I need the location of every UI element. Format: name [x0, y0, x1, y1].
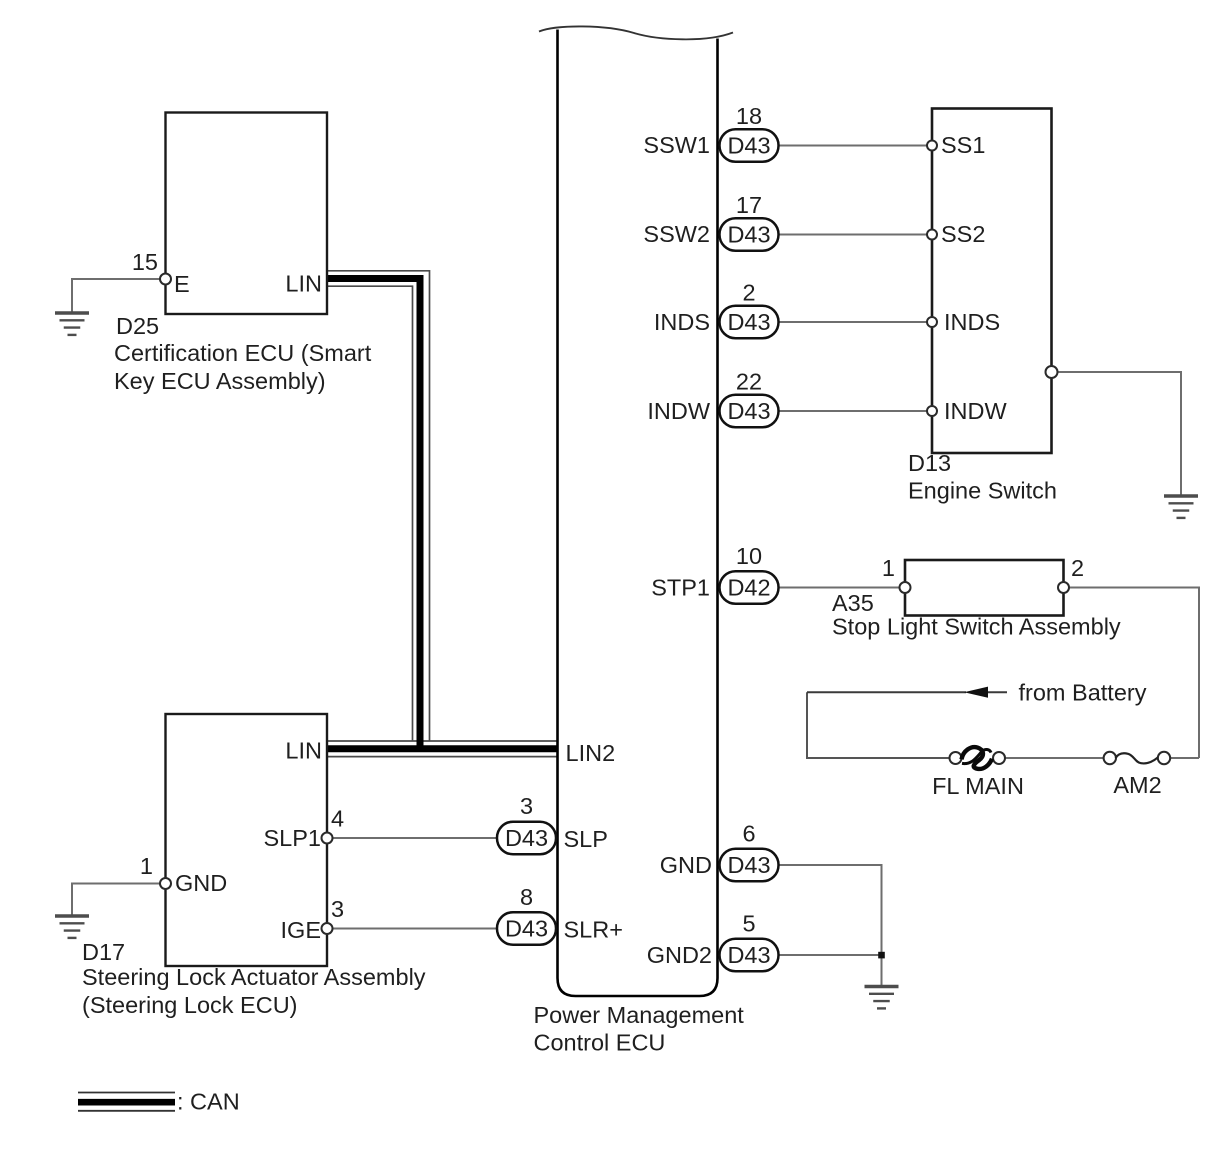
svg-text:D43: D43: [727, 942, 770, 968]
svg-text:22: 22: [736, 369, 762, 395]
svg-text:D43: D43: [727, 133, 770, 159]
svg-text:1: 1: [882, 555, 895, 581]
svg-text:Stop Light Switch Assembly: Stop Light Switch Assembly: [832, 614, 1121, 640]
svg-text:FL MAIN: FL MAIN: [932, 773, 1024, 799]
svg-text:INDS: INDS: [944, 309, 1000, 335]
svg-text:AM2: AM2: [1113, 772, 1161, 798]
svg-text:: CAN: : CAN: [177, 1089, 240, 1115]
svg-text:INDW: INDW: [944, 398, 1007, 424]
svg-text:D42: D42: [727, 575, 770, 601]
svg-text:3: 3: [520, 793, 533, 819]
svg-text:Engine Switch: Engine Switch: [908, 478, 1057, 504]
svg-text:D43: D43: [727, 222, 770, 248]
svg-text:2: 2: [742, 280, 755, 306]
svg-text:SS1: SS1: [941, 132, 985, 158]
svg-text:Steering Lock Actuator Assembl: Steering Lock Actuator Assembly: [82, 964, 426, 990]
svg-text:SLR+: SLR+: [564, 917, 623, 943]
svg-text:(Steering Lock ECU): (Steering Lock ECU): [82, 992, 298, 1018]
svg-text:5: 5: [742, 911, 755, 937]
svg-text:SSW1: SSW1: [643, 132, 710, 158]
svg-text:D43: D43: [727, 309, 770, 335]
svg-text:LIN: LIN: [285, 738, 322, 764]
svg-text:Certification ECU (Smart: Certification ECU (Smart: [114, 340, 372, 366]
svg-text:17: 17: [736, 192, 762, 218]
svg-text:INDW: INDW: [647, 398, 710, 424]
svg-text:STP1: STP1: [651, 575, 710, 601]
svg-text:SSW2: SSW2: [643, 221, 710, 247]
svg-text:GND: GND: [175, 870, 227, 896]
svg-text:D17: D17: [82, 939, 125, 965]
svg-text:GND2: GND2: [647, 942, 712, 968]
svg-text:D43: D43: [505, 916, 548, 942]
svg-text:15: 15: [132, 249, 158, 275]
svg-text:18: 18: [736, 103, 762, 129]
svg-text:GND: GND: [660, 852, 712, 878]
svg-text:3: 3: [331, 896, 344, 922]
svg-text:from Battery: from Battery: [1019, 680, 1147, 706]
svg-text:LIN2: LIN2: [566, 740, 616, 766]
svg-text:A35: A35: [832, 590, 874, 616]
svg-text:10: 10: [736, 543, 762, 569]
svg-text:D13: D13: [908, 450, 951, 476]
svg-text:Power Management: Power Management: [534, 1002, 745, 1028]
svg-text:D43: D43: [727, 852, 770, 878]
svg-text:D25: D25: [116, 313, 159, 339]
svg-text:Key ECU Assembly): Key ECU Assembly): [114, 368, 326, 394]
svg-text:SLP1: SLP1: [264, 825, 322, 851]
svg-text:8: 8: [520, 884, 533, 910]
svg-text:LIN: LIN: [285, 271, 322, 297]
svg-text:SLP: SLP: [564, 826, 608, 852]
svg-text:Control ECU: Control ECU: [534, 1030, 666, 1056]
svg-text:D43: D43: [505, 825, 548, 851]
svg-text:INDS: INDS: [654, 309, 710, 335]
svg-text:6: 6: [742, 821, 755, 847]
svg-text:2: 2: [1071, 555, 1084, 581]
svg-text:D43: D43: [727, 398, 770, 424]
svg-text:1: 1: [140, 853, 153, 879]
svg-text:4: 4: [331, 806, 344, 832]
svg-text:E: E: [174, 271, 190, 297]
svg-text:SS2: SS2: [941, 221, 985, 247]
svg-text:IGE: IGE: [281, 917, 321, 943]
